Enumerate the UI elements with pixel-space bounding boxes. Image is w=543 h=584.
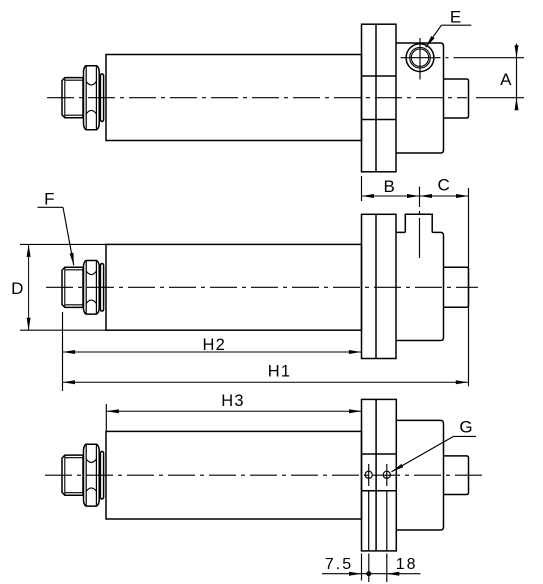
svg-text:7.5: 7.5 <box>325 556 353 573</box>
svg-text:18: 18 <box>396 556 418 573</box>
svg-text:H2: H2 <box>203 336 227 354</box>
svg-text:H3: H3 <box>221 392 245 410</box>
svg-text:B: B <box>384 177 395 196</box>
svg-text:D: D <box>11 279 23 298</box>
svg-text:G: G <box>459 417 472 436</box>
svg-text:E: E <box>450 7 461 26</box>
svg-text:H1: H1 <box>268 363 292 381</box>
svg-text:A: A <box>500 70 512 89</box>
svg-text:F: F <box>44 190 54 209</box>
svg-text:C: C <box>438 176 450 195</box>
